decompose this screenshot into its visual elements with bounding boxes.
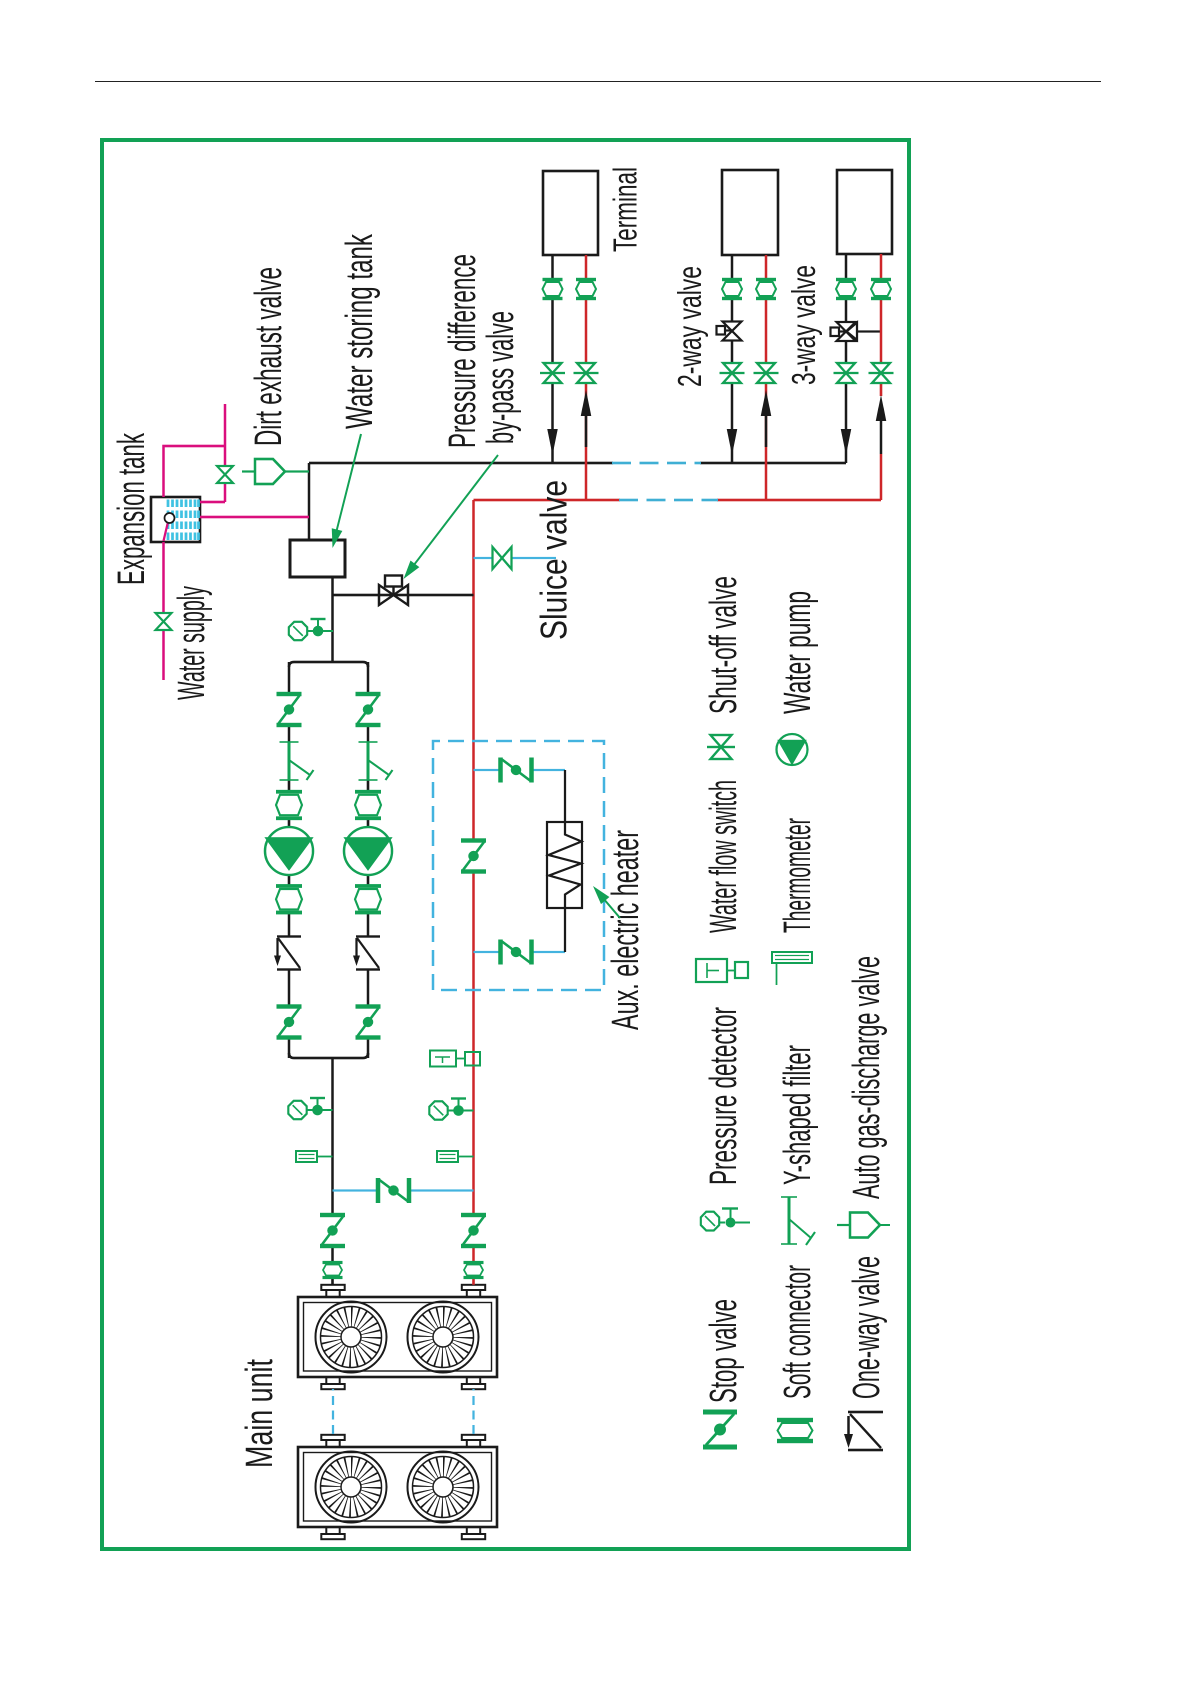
shut-off valve terminal 3 return — [834, 363, 859, 383]
water storing tank — [290, 540, 345, 577]
legend pressure detector symbol — [701, 1209, 750, 1231]
arrow to by-pass valve — [399, 455, 498, 582]
expansion tank — [151, 497, 200, 542]
refrigerant dashed link supply side — [472, 1389, 474, 1434]
legend water flow switch symbol — [696, 959, 748, 982]
3-way valve — [831, 322, 882, 341]
terminal 3 return branch — [845, 254, 848, 463]
fan 2 of main unit box 2 — [408, 1452, 479, 1523]
soft connector on return pipe — [323, 1263, 343, 1278]
soft connector terminal 1 supply — [576, 280, 596, 299]
water supply pipe — [162, 542, 165, 680]
shut-off valve terminal 2 supply — [754, 363, 779, 383]
svg-text:One-way valve: One-way valve — [846, 1256, 888, 1399]
svg-text:Terminal: Terminal — [607, 167, 644, 252]
terminal 2 return branch — [731, 255, 734, 463]
shut-off valve terminal 1 return — [540, 363, 565, 383]
2-way valve — [717, 322, 742, 341]
bypass pipe tank side — [333, 594, 474, 597]
svg-text:Expansion tank: Expansion tank — [111, 432, 153, 585]
main unit box 2 — [298, 1447, 497, 1527]
stop valve on bypass — [378, 1178, 409, 1203]
flow arrow on terminal 1 supply — [581, 390, 592, 447]
fan 1 of main unit box 2 — [316, 1452, 387, 1523]
svg-text:Sluice valve: Sluice valve — [534, 480, 575, 640]
shut-off valve terminal 1 supply — [574, 363, 599, 383]
stop valve on supply pipe — [461, 1215, 486, 1246]
pump manifold right — [289, 577, 368, 667]
sluice valve drop — [474, 557, 557, 559]
pump manifold left — [289, 1053, 368, 1058]
svg-text:Shut-off valve: Shut-off valve — [703, 576, 745, 714]
flow arrow on terminal 2 return — [727, 429, 738, 455]
svg-text:Main unit: Main unit — [239, 1359, 281, 1468]
svg-text:Water pump: Water pump — [777, 591, 819, 714]
soft connector on supply pipe — [464, 1263, 484, 1278]
heater left drop pipe — [474, 951, 566, 953]
svg-text:Water flow switch: Water flow switch — [703, 780, 745, 933]
flange stub box2 right return — [321, 1435, 344, 1447]
return pipe from main unit — [331, 1058, 334, 1285]
pump branch 1 — [265, 662, 314, 1058]
flow arrow on terminal 3 return — [841, 429, 852, 455]
pressure gauge near storing tank — [289, 619, 333, 640]
thermometer on supply pipe — [437, 1151, 474, 1162]
fan 1 of main unit box 1 — [316, 1302, 387, 1373]
legend auto gas-discharge valve symbol — [837, 1213, 890, 1238]
thermometer on return pipe — [296, 1151, 333, 1162]
supply main dashed gap — [619, 499, 718, 502]
pressure gauge on return pipe — [288, 1098, 332, 1119]
legend stop valve symbol — [703, 1412, 737, 1447]
expansion tank to return link — [200, 516, 309, 519]
refrigerant dashed link return side — [332, 1389, 334, 1434]
expansion tank top pipe — [164, 404, 226, 502]
terminal 1 box — [543, 171, 598, 255]
svg-text:3-way valve: 3-way valve — [785, 265, 822, 385]
stop valve on supply inside heater box — [461, 841, 486, 872]
flange stub box1 left return — [321, 1377, 344, 1389]
pump branch 2 — [344, 662, 393, 1058]
supply main riser — [474, 499, 882, 502]
return main riser — [309, 462, 846, 465]
stop valve on right drop — [501, 758, 532, 783]
svg-text:Y-shaped filter: Y-shaped filter — [777, 1045, 819, 1185]
legend one-way valve symbol — [844, 1412, 883, 1450]
soft connector terminal 3 supply — [871, 280, 891, 299]
flange stub box1 right return — [321, 1285, 344, 1297]
flange stub box1 left supply — [462, 1377, 485, 1389]
return main top link to tank — [308, 463, 311, 540]
heater connection pipes — [564, 770, 566, 952]
dirt exhaust valve link — [285, 470, 309, 472]
terminal 3 box — [837, 170, 892, 254]
soft connector terminal 3 return — [836, 280, 856, 299]
valve on expansion pipe — [217, 466, 233, 483]
heater right drop pipe — [474, 769, 566, 771]
main unit box 1 — [298, 1297, 497, 1377]
svg-text:Dirt exhaust valve: Dirt exhaust valve — [248, 267, 290, 446]
supply pipe to main unit — [472, 500, 475, 1285]
flange stub box2 left supply — [462, 1527, 485, 1539]
pressure gauge on supply pipe — [429, 1099, 473, 1120]
terminal 2 supply branch — [765, 255, 768, 500]
stop valve on return pipe — [320, 1215, 345, 1246]
svg-text:Thermometer: Thermometer — [777, 818, 819, 933]
header rule — [95, 81, 1101, 82]
sluice valve — [493, 547, 512, 569]
return main dashed gap — [612, 462, 701, 465]
terminal 1 supply branch — [585, 255, 588, 500]
shut-off valve terminal 2 return — [720, 363, 745, 383]
fan 2 of main unit box 1 — [408, 1302, 479, 1373]
svg-text:Pressure detector: Pressure detector — [703, 1007, 745, 1185]
bypass with stop valve between return and supply — [333, 1189, 474, 1191]
legend shut-off valve symbol — [707, 735, 735, 759]
svg-text:Pressure difference: Pressure difference — [442, 254, 484, 448]
flow arrow on terminal 3 supply — [876, 395, 887, 454]
aux electric heater body — [547, 822, 582, 908]
flow arrow on terminal 2 supply — [761, 390, 772, 447]
svg-text:Water supply: Water supply — [171, 586, 213, 700]
flow arrow on terminal 1 return — [547, 429, 558, 455]
pressure difference bypass valve — [379, 576, 408, 606]
terminal 3 supply branch — [880, 254, 883, 500]
svg-text:Auto gas-discharge valve: Auto gas-discharge valve — [846, 956, 888, 1199]
svg-text:Aux. electric heater: Aux. electric heater — [605, 830, 647, 1030]
aux electric heater dashed enclosure — [433, 741, 604, 990]
svg-text:by-pass valve: by-pass valve — [480, 311, 522, 444]
soft connector terminal 2 supply — [756, 280, 776, 299]
svg-text:Water storing tank: Water storing tank — [339, 233, 381, 429]
terminal 1 return branch — [551, 255, 554, 463]
terminal 2 box — [722, 170, 778, 255]
arrow to aux electric heater — [589, 882, 620, 918]
valve on water supply — [156, 613, 172, 630]
legend Y-shaped filter symbol — [781, 1197, 815, 1245]
flange stub box2 left return — [321, 1527, 344, 1539]
svg-text:2-way valve: 2-way valve — [671, 266, 708, 387]
svg-text:Stop valve: Stop valve — [703, 1299, 745, 1403]
frame border — [102, 140, 909, 1549]
svg-text:Soft connector: Soft connector — [777, 1265, 819, 1399]
water flow switch on supply pipe — [430, 1051, 480, 1067]
soft connector terminal 2 return — [722, 280, 742, 299]
shut-off valve terminal 3 supply — [869, 363, 894, 383]
stop valve on left drop — [501, 940, 532, 965]
legend thermometer symbol — [772, 952, 812, 985]
flange stub box1 right supply — [462, 1285, 485, 1297]
flange stub box2 right supply — [462, 1435, 485, 1447]
legend water pump symbol — [777, 734, 808, 765]
arrow to water storing tank — [327, 434, 361, 549]
soft connector terminal 1 return — [543, 280, 563, 299]
legend soft connector symbol — [777, 1420, 813, 1441]
dirt exhaust valve — [242, 459, 285, 484]
